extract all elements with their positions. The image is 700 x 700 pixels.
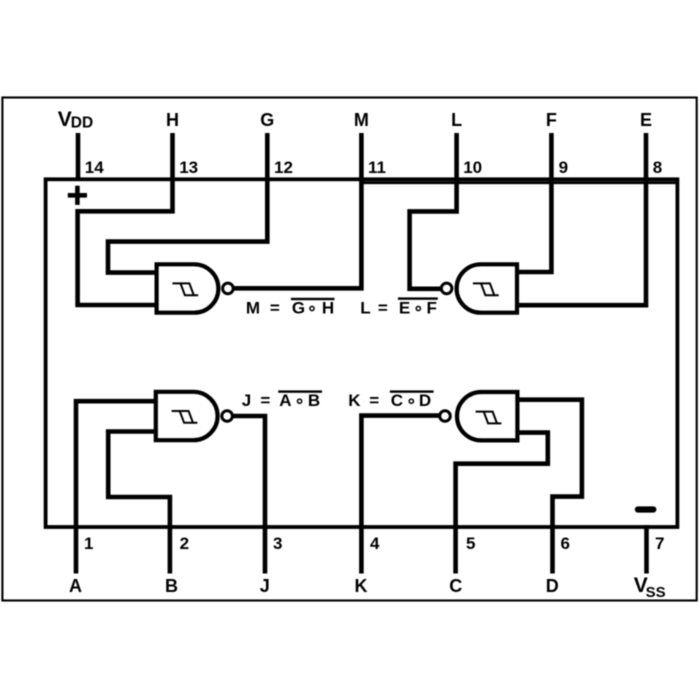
pin 4 K stub and output wire from gate U4 [361,416,439,574]
pin 10 L stub and output wire from gate U2 [410,133,457,289]
NAND gate U4 body (bottom-right, mirrored) [457,392,517,440]
gate U1 schmitt hysteresis symbol [172,283,198,295]
svg-text:J: J [242,391,251,410]
svg-text:5: 5 [466,534,475,553]
svg-text:H: H [166,110,179,130]
pin 6 D stub and wire to gate U4 upper input [516,400,582,574]
NAND gate U3 body (bottom-left) [156,392,218,440]
equation J = A.B [242,391,320,410]
svg-text:12: 12 [274,158,293,177]
outer border frame [2,98,696,601]
gate U1 output bubble [223,283,234,294]
gate U2 output bubble [441,283,452,294]
overline over G.H [291,298,335,300]
NAND gate U2 body (top-right, mirrored) [457,264,517,312]
svg-text:=: = [270,299,280,318]
label VDD [58,108,93,132]
pin 9 F stub and wire to gate U2 upper input [519,133,551,272]
svg-text:DD: DD [71,114,93,131]
minus symbol (negative supply) [635,506,657,512]
svg-text:11: 11 [368,158,386,177]
svg-text:E: E [640,110,652,130]
svg-text:D: D [546,576,559,596]
package top edge thickening (scan doubling) right of pin 11 [361,181,678,184]
svg-text:J: J [260,576,270,596]
equation M bullet [310,306,314,310]
svg-text:9: 9 [559,158,568,177]
svg-text:=: = [378,299,388,318]
gate U3 output bubble [222,411,233,422]
equation M = G.H [246,299,334,318]
svg-text:A: A [69,576,82,596]
overline over C.D [390,390,434,392]
pin 5 C stub and wire to gate U4 lower input [456,433,548,574]
IC package outline [46,179,678,527]
pin 7 VSS stub [644,525,649,574]
gate U4 schmitt hysteresis symbol [476,412,502,424]
svg-text:L: L [451,110,462,130]
pin 3 J stub and output wire from gate U3 [233,416,265,574]
equation L = E.F [360,299,437,318]
svg-text:V: V [58,108,72,131]
svg-text:C: C [449,576,462,596]
svg-text:A: A [279,391,291,410]
svg-text:B: B [165,576,178,596]
equation K = C.D [348,391,431,410]
pin 1 A stub and wire to gate U3 upper input [76,401,157,573]
svg-text:=: = [260,391,270,410]
svg-text:G: G [260,110,274,130]
overline over E.F [398,297,438,299]
svg-text:1: 1 [84,534,93,553]
svg-text:H: H [322,299,334,318]
svg-text:3: 3 [273,534,282,553]
svg-text:D: D [419,391,431,410]
svg-text:F: F [546,110,557,130]
svg-text:4: 4 [370,534,380,553]
gate U3 schmitt hysteresis symbol [172,411,198,423]
svg-text:13: 13 [179,158,198,177]
svg-text:K: K [355,576,368,596]
svg-text:K: K [348,391,361,410]
svg-text:SS: SS [646,584,666,601]
svg-text:8: 8 [653,158,662,177]
svg-text:M: M [246,299,260,318]
svg-text:10: 10 [463,158,482,177]
svg-text:14: 14 [85,158,104,177]
svg-text:E: E [399,299,410,318]
svg-text:L: L [360,299,370,318]
pin 12 G stub and wire to gate U1 upper input [108,133,267,273]
gate U4 output bubble [440,411,451,422]
NAND gate U1 body (top-left) [157,264,219,312]
equation L bullet [416,306,420,310]
plus symbol (positive supply) [68,186,87,205]
equation K bullet [409,399,413,403]
label VSS [634,574,666,601]
svg-text:B: B [308,391,320,410]
equation J bullet [298,399,302,403]
pin 8 E stub and wire to gate U2 lower input [519,133,646,305]
pin 2 B stub and wire to gate U3 lower input [108,432,170,574]
svg-text:M: M [354,110,369,130]
svg-text:7: 7 [655,534,664,553]
svg-text:=: = [369,391,379,410]
pin 11 M stub and output wire from gate U1 [233,133,361,288]
svg-text:G: G [292,299,305,318]
gate U2 schmitt hysteresis symbol [473,283,499,295]
svg-text:2: 2 [180,534,189,553]
svg-text:6: 6 [561,534,570,553]
svg-text:F: F [427,299,437,318]
pin 14 VDD stub [76,133,81,181]
overline over A.B [278,390,322,392]
svg-text:C: C [391,391,403,410]
pin 13 H stub and wire to gate U1 lower input [78,133,173,305]
